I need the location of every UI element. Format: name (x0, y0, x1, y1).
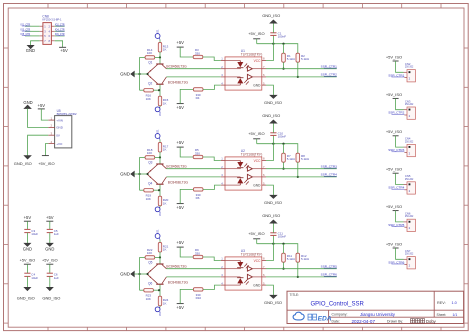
junction (282, 168, 284, 170)
svg-text:+5V: +5V (46, 215, 54, 220)
wire +5V to R5 (180, 147, 193, 157)
U1 buffer2 (247, 74, 261, 79)
wire CN8 pin7 to GND (31, 41, 40, 46)
resistor R1 5.1k (282, 44, 296, 69)
wire GND to U5 pin2 (28, 109, 49, 128)
svg-text:TITLE:: TITLE: (290, 293, 300, 297)
svg-text:100nF: 100nF (278, 135, 287, 139)
svg-text:+5V_ISO: +5V_ISO (248, 231, 264, 236)
junction (297, 76, 299, 78)
net port flag (bottom) (155, 107, 160, 112)
svg-text:IO2: IO2 (158, 112, 162, 117)
svg-text:1K: 1K (163, 301, 167, 305)
U2 buffer2 (247, 174, 261, 179)
wire GND feed (134, 73, 147, 75)
ground GND_ISO (above C11) (270, 220, 277, 223)
svg-text:Jiangsu University: Jiangsu University (360, 312, 396, 317)
svg-text:R4: R4 (196, 96, 200, 100)
svg-text:Q4: Q4 (148, 181, 152, 185)
svg-text:GPIO_Control_SSR: GPIO_Control_SSR (311, 301, 365, 307)
resistor R5 330 (193, 155, 203, 158)
svg-text:BC846BLT3G: BC846BLT3G (166, 164, 187, 168)
U3 buffer2 (247, 274, 261, 279)
svg-text:+VIN: +VIN (56, 118, 63, 122)
svg-text:SSR_CTR6: SSR_CTR6 (321, 273, 337, 277)
resistor R17 1K (159, 140, 161, 143)
svg-text:GND: GND (56, 126, 64, 130)
U2 right pin stubs (262, 157, 266, 186)
U2 left pin stubs (221, 157, 225, 186)
resistor R11 5.1k (282, 244, 296, 269)
wire base riser (139, 57, 141, 90)
junction (282, 243, 284, 245)
svg-text:10K: 10K (147, 51, 152, 55)
ground GND (C3) (24, 243, 30, 246)
svg-text:Drawn By:: Drawn By: (387, 320, 403, 324)
junction (159, 156, 161, 158)
svg-text:+5V: +5V (24, 215, 32, 220)
resistor R19 10K (140, 189, 144, 191)
svg-text:+5V: +5V (176, 240, 184, 245)
svg-text:EDA: EDA (318, 315, 332, 322)
svg-text:GND_ISO: GND_ISO (42, 296, 60, 301)
ground GND_ISO (C6) (47, 287, 53, 290)
svg-text:5.1kΩ: 5.1kΩ (287, 157, 296, 161)
svg-text:+5V_ISO: +5V_ISO (248, 131, 264, 136)
net port flag (top) (155, 34, 160, 39)
junction (282, 268, 284, 270)
resistor R12 5.1k (296, 253, 310, 277)
svg-text:10K: 10K (146, 97, 151, 101)
svg-text:SSR_CTR3: SSR_CTR3 (388, 148, 404, 152)
U3 LED1 (225, 261, 249, 269)
ground GND_ISO (below U2) (270, 195, 277, 198)
svg-text:Doby: Doby (426, 319, 437, 324)
U5 pin numbers (51, 116, 53, 144)
svg-text:+5V_ISO: +5V_ISO (386, 204, 402, 209)
svg-text:GND: GND (253, 283, 261, 287)
svg-text:BC846BLT3G: BC846BLT3G (168, 181, 189, 185)
svg-text:5.1kΩ: 5.1kΩ (287, 57, 296, 61)
wire R3 to opto pin1 (203, 57, 221, 61)
wire GND feed (134, 173, 147, 175)
svg-text:250-202: 250-202 (405, 216, 414, 218)
svg-text:SSR_CTR3: SSR_CTR3 (321, 164, 337, 168)
svg-text:VCC: VCC (254, 59, 261, 63)
connector CN4 250-202 (404, 137, 415, 157)
svg-text:10K: 10K (147, 251, 152, 255)
junction (158, 189, 160, 191)
wire Q2 collector to opto pin3 (166, 76, 220, 78)
svg-text:GND_ISO: GND_ISO (262, 113, 280, 118)
svg-text:1K: 1K (163, 148, 167, 152)
svg-text:10K: 10K (146, 297, 151, 301)
power +5V (R6) (177, 203, 184, 205)
svg-text:+5V_ISO: +5V_ISO (386, 54, 402, 59)
svg-text:GND: GND (120, 71, 130, 76)
wire U2 pin7 to SSR_CTR3 (266, 168, 337, 170)
junction (158, 289, 160, 291)
svg-text:1K: 1K (163, 201, 167, 205)
ground GND_ISO (above C1) (270, 20, 277, 23)
svg-text:5.1kΩ: 5.1kΩ (301, 57, 310, 61)
resistor R8 5.1k (296, 153, 310, 177)
wire U2 pin8 VCC (266, 144, 273, 161)
wire +5V to C3 (26, 221, 28, 229)
wire R6 to opto pin4 (203, 185, 221, 189)
wire CN8 pin3 (25, 30, 40, 32)
wire U3 pin8 VCC (266, 244, 273, 261)
svg-text:CN2: CN2 (405, 62, 411, 66)
wire +5V_ISO rail (256, 139, 258, 144)
wire GND feed (134, 273, 147, 275)
svg-text:R6: R6 (196, 196, 200, 200)
junction (282, 68, 284, 70)
junction (138, 173, 140, 175)
svg-text:TLP2168(TP,F): TLP2168(TP,F) (241, 253, 263, 257)
connector CN2 250-202 (404, 62, 415, 82)
connector CN8 pin stubs (40, 26, 55, 41)
svg-text:GND_ISO: GND_ISO (264, 100, 282, 105)
power +5V (CN8) (59, 46, 66, 48)
svg-text:10uF: 10uF (31, 232, 38, 236)
svg-text:SSR_CTR5: SSR_CTR5 (388, 223, 404, 227)
resistor R16 10K (140, 89, 144, 91)
wire Q4 collector to opto pin3 (166, 176, 220, 178)
connector CN8 body (43, 23, 52, 45)
svg-text:+5V: +5V (60, 48, 68, 53)
svg-text:250-202: 250-202 (405, 179, 414, 181)
wire +5V to R4 (180, 89, 193, 103)
svg-text:250-202: 250-202 (405, 254, 414, 256)
connector CN5 250-202 (404, 174, 415, 194)
svg-text:1uF: 1uF (54, 232, 59, 236)
resistor R14 10K (140, 56, 146, 58)
capacitor C10 100nF (270, 123, 286, 143)
svg-text:IO1: IO1 (156, 229, 160, 234)
svg-text:5.1kΩ: 5.1kΩ (301, 157, 310, 161)
junction (297, 176, 299, 178)
wire +5V_ISO to CN2 pin1 (396, 61, 404, 72)
svg-text:SSR_CTR1: SSR_CTR1 (321, 64, 337, 68)
svg-text:BC846BLT3G: BC846BLT3G (166, 264, 187, 268)
capacitor C1 100nF (270, 23, 286, 43)
junction (159, 256, 161, 258)
power +5V (R4) (177, 103, 184, 105)
junction (147, 273, 149, 275)
resistor R9 330 (193, 255, 203, 258)
wire R5 to opto pin1 (203, 157, 221, 161)
wire U1 pin7 to SSR_CTR1 (266, 68, 337, 70)
resistor R3 330 (193, 55, 203, 58)
U2 buffer1 (247, 166, 261, 171)
wire +5V to R10 (180, 289, 193, 303)
svg-text:+VO: +VO (56, 142, 63, 146)
svg-text:CN6: CN6 (405, 212, 411, 216)
svg-text:Q6: Q6 (148, 281, 152, 285)
svg-text:10uF: 10uF (31, 276, 38, 280)
title block frame (287, 291, 464, 323)
svg-text:250-202: 250-202 (405, 141, 414, 143)
svg-text:GND_ISO: GND_ISO (14, 161, 32, 166)
power +5V_ISO (U5 output) (42, 155, 49, 157)
svg-text:REV:: REV: (437, 301, 446, 305)
svg-text:GND: GND (23, 100, 32, 105)
wire U3 pin7 to SSR_CTR5 (266, 268, 337, 270)
svg-text:+5V_ISO: +5V_ISO (248, 31, 264, 36)
U3 buffer1 (247, 266, 261, 271)
svg-text:Date:: Date: (332, 320, 340, 324)
svg-text:Company:: Company: (332, 313, 348, 317)
easyeda logo (293, 312, 332, 322)
wire Q1 collector to opto pin2 (166, 68, 220, 70)
svg-text:+5V_ISO: +5V_ISO (386, 241, 402, 246)
svg-text:CN3: CN3 (405, 99, 411, 103)
svg-text:BC846BLT3G: BC846BLT3G (166, 64, 187, 68)
wire C4 to GND_ISO (26, 276, 28, 287)
svg-text:100nF: 100nF (278, 35, 287, 39)
wire +5V to C5 (49, 221, 51, 229)
wire +5V_ISO to C6 (49, 264, 51, 273)
wire CN8 pin2 (55, 25, 65, 27)
connector CN6 250-202 (404, 212, 415, 232)
power +5V (R10) (177, 303, 184, 305)
svg-text:+5V: +5V (38, 103, 46, 108)
wire CN8 pin1 (25, 25, 40, 27)
svg-text:TLP2168(TP,F): TLP2168(TP,F) (241, 153, 263, 157)
svg-text:VCC: VCC (254, 159, 261, 163)
svg-text:SSR_CTR2: SSR_CTR2 (388, 111, 404, 115)
wire +5V_ISO to CN7 pin1 (396, 248, 404, 259)
svg-text:+5V_ISO: +5V_ISO (20, 259, 36, 263)
wire base riser (139, 157, 141, 190)
transistor Q5 BC846BLT3G (148, 257, 167, 273)
svg-text:R10: R10 (196, 296, 202, 300)
wire R9 to opto pin1 (203, 257, 221, 261)
junction (159, 56, 161, 58)
U2 LED1 (225, 161, 249, 169)
junction (282, 43, 284, 45)
U1 left pin stubs (221, 57, 225, 86)
transistor Q1 BC846BLT3G (148, 57, 167, 73)
wire +5V_ISO rail (256, 239, 258, 244)
capacitor C4 10uF (24, 272, 30, 274)
wire CN8 pin4 (55, 30, 65, 32)
U3 LED2 (225, 277, 249, 285)
transistor Q4 BC846BLT3G (148, 175, 167, 190)
svg-text:BC846BLT3G: BC846BLT3G (168, 281, 189, 285)
resistor R20 1K (159, 190, 161, 196)
connector CN3 250-202 (404, 99, 415, 119)
svg-text:+5V: +5V (176, 205, 184, 210)
svg-text:1.0: 1.0 (452, 301, 457, 305)
svg-text:CN7: CN7 (405, 249, 411, 253)
resistor R15 1K (159, 90, 161, 96)
U1 LED1 (225, 61, 249, 69)
resistor R10 330 (193, 288, 203, 291)
U3 right pin stubs (262, 257, 266, 286)
net port flag (top) (155, 134, 160, 139)
svg-text:1K: 1K (163, 101, 167, 105)
svg-text:GND: GND (120, 271, 130, 276)
junction (158, 89, 160, 91)
wire U1 pin5 to GND_ISO (266, 85, 273, 95)
resistor R4 330 (193, 88, 203, 91)
connector CN8 pin numbers (44, 24, 50, 43)
wire R4 to opto pin4 (203, 85, 221, 89)
wire C3 to GND (26, 233, 28, 244)
wire U2 pin6 to SSR_CTR4 (266, 176, 337, 178)
wire +5V to R6 (180, 189, 193, 203)
svg-text:100nF: 100nF (278, 235, 287, 239)
svg-text:+5V: +5V (176, 305, 184, 310)
wire CN8 pin8 to +5V (55, 41, 63, 48)
resistor R6 330 (193, 188, 203, 191)
svg-text:GND_ISO: GND_ISO (262, 213, 280, 218)
svg-text:GND: GND (45, 246, 54, 251)
wire U5 pin4 to +5V_ISO (45, 144, 48, 156)
svg-text:+5V_ISO: +5V_ISO (386, 129, 402, 134)
junction (147, 173, 149, 175)
wire R10 to opto pin4 (203, 285, 221, 289)
resistor R7 5.1k (282, 144, 296, 169)
svg-text:+5V_ISO: +5V_ISO (42, 259, 58, 263)
wire Q6 collector to opto pin3 (166, 276, 220, 278)
svg-text:10K: 10K (147, 151, 152, 155)
svg-text:GND: GND (120, 171, 130, 176)
resistor R2 5.1k (296, 53, 310, 77)
svg-text:1K: 1K (163, 48, 167, 52)
svg-text:GND: GND (26, 48, 35, 53)
svg-text:IO1: IO1 (156, 29, 160, 34)
wire +5V_ISO to CN4 pin1 (396, 136, 404, 147)
svg-text:SSR_CTR4: SSR_CTR4 (321, 173, 337, 177)
transistor Q3 BC846BLT3G (148, 157, 167, 173)
wire +5V_ISO to CN5 pin1 (396, 173, 404, 184)
ground GND_ISO (C4) (24, 287, 30, 290)
wire +5V to R9 (180, 247, 193, 257)
svg-text:KF250-3.5-8P-1: KF250-3.5-8P-1 (42, 18, 62, 22)
wire U3 pin6 to SSR_CTR6 (266, 276, 337, 278)
svg-text:TLP2168(TP,F): TLP2168(TP,F) (241, 53, 263, 57)
svg-text:GND_ISO: GND_ISO (262, 13, 280, 18)
svg-text:+5V: +5V (176, 140, 184, 145)
ground GND (C5) (47, 243, 53, 246)
svg-text:330: 330 (195, 51, 200, 55)
U1 buffer1 (247, 66, 261, 71)
svg-text:SSR_CTR6: SSR_CTR6 (388, 260, 404, 264)
svg-text:IO2: IO2 (158, 212, 162, 217)
svg-text:+5V_ISO: +5V_ISO (38, 161, 54, 166)
svg-text:5.1kΩ: 5.1kΩ (301, 257, 310, 261)
svg-text:Sheet:: Sheet: (437, 313, 447, 317)
svg-text:10K: 10K (146, 197, 151, 201)
wire base riser (139, 257, 141, 290)
junction (272, 43, 274, 45)
svg-text:CN4: CN4 (405, 137, 411, 141)
svg-text:Q3: Q3 (148, 161, 152, 165)
junction (297, 276, 299, 278)
wire +5V_ISO to C4 (26, 264, 28, 273)
wire +5V_ISO to CN6 pin1 (396, 211, 404, 222)
svg-text:SSR_CTR5: SSR_CTR5 (321, 264, 337, 268)
wire +5V to U5 pin1 (41, 109, 48, 120)
svg-text:GND_ISO: GND_ISO (17, 296, 35, 301)
U2 LED2 (225, 177, 249, 185)
svg-text:Q2: Q2 (148, 81, 152, 85)
U1 right pin stubs (262, 57, 266, 86)
svg-text:SSR_CTR2: SSR_CTR2 (321, 73, 337, 77)
svg-text:VCC: VCC (254, 259, 261, 263)
junction (138, 73, 140, 75)
ground GND_ISO (above C10) (270, 120, 277, 123)
resistor R21 1K (159, 240, 161, 243)
svg-text:SSR_CTR4: SSR_CTR4 (388, 186, 404, 190)
resistor R13 1K (159, 40, 161, 43)
net port flag (top) (155, 234, 160, 239)
junction (272, 143, 274, 145)
svg-text:GND: GND (253, 83, 261, 87)
U1 LED2 (225, 77, 249, 85)
transistor Q6 BC846BLT3G (148, 275, 167, 290)
junction (147, 73, 149, 75)
svg-text:+5V: +5V (176, 40, 184, 45)
wire C6 to GND_ISO (49, 276, 51, 287)
svg-text:BC846BLT3G: BC846BLT3G (168, 81, 189, 85)
capacitor C6 1uF (47, 272, 53, 274)
resistor R23 10K (140, 289, 144, 291)
svg-text:Q5: Q5 (148, 261, 152, 265)
junction (272, 243, 274, 245)
wire Q5 collector to opto pin2 (166, 268, 220, 270)
connector CN7 250-202 (404, 249, 415, 269)
svg-text:+5V_ISO: +5V_ISO (386, 167, 402, 172)
resistor R24 1K (159, 290, 161, 296)
wire CN8 pin6 (55, 35, 65, 37)
ground GND (CN8) (27, 45, 33, 48)
ground GND_ISO (below U1) (270, 95, 277, 98)
wire +5V_ISO to CN3 pin1 (396, 98, 404, 109)
svg-text:SSR_CTR1: SSR_CTR1 (388, 73, 404, 77)
svg-text:2022-04-07: 2022-04-07 (352, 319, 376, 324)
junction (138, 273, 140, 275)
svg-text:+5V: +5V (176, 105, 184, 110)
wire U2 pin5 to GND_ISO (266, 185, 273, 195)
svg-text:1K: 1K (163, 248, 167, 252)
capacitor C11 100nF (270, 223, 286, 243)
resistor R22 10K (140, 256, 146, 258)
wire U5 pin3 to GND_ISO (28, 135, 49, 155)
net port flag (bottom) (155, 307, 160, 312)
U3 left pin stubs (221, 257, 225, 286)
wire CN8 pin5 (25, 35, 40, 37)
ground GND_ISO (below U3) (270, 295, 277, 298)
wire +5V_ISO rail (256, 39, 258, 44)
svg-text:GND: GND (23, 246, 32, 251)
transistor Q2 BC846BLT3G (148, 75, 167, 90)
svg-text:IO1: IO1 (156, 129, 160, 134)
resistor R18 10K (140, 156, 146, 158)
svg-text:GND_ISO: GND_ISO (264, 300, 282, 305)
wire U1 pin6 to SSR_CTR2 (266, 76, 337, 78)
wire Q3 collector to opto pin2 (166, 168, 220, 170)
capacitor C3 10uF (24, 228, 30, 230)
svg-text:330: 330 (195, 151, 200, 155)
svg-text:CN5: CN5 (405, 174, 411, 178)
wire U1 pin8 VCC (266, 44, 273, 61)
svg-text:250-202: 250-202 (405, 104, 414, 106)
svg-text:1uF: 1uF (54, 276, 59, 280)
